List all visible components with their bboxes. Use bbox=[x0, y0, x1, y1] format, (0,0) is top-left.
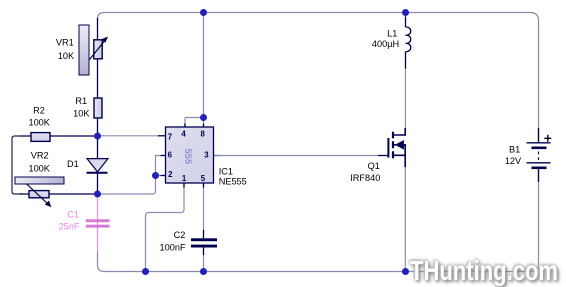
resistor R1 bbox=[94, 98, 102, 118]
ic pin stubs (dark) bbox=[161, 124, 220, 188]
svg-text:7: 7 bbox=[168, 133, 172, 142]
ic IC1 555 body bbox=[166, 127, 214, 183]
potentiometer VR2 element bbox=[27, 184, 52, 207]
label IC1 NE555 bbox=[219, 166, 247, 186]
label B1 value bbox=[505, 145, 522, 167]
wire source to ground rail bbox=[404, 166, 406, 272]
svg-text:100K: 100K bbox=[28, 163, 50, 173]
pin 5 bbox=[201, 174, 206, 183]
svg-text:100K: 100K bbox=[28, 117, 50, 127]
wire D1 branch bbox=[97, 136, 99, 194]
wire pin3 to gate bbox=[214, 155, 379, 157]
svg-text:THunting.com: THunting.com bbox=[410, 255, 558, 286]
wire battery bottom lead bbox=[532, 182, 539, 272]
label D1 bbox=[67, 159, 79, 169]
capacitor C2 bbox=[191, 230, 217, 255]
svg-text:IC1: IC1 bbox=[219, 166, 233, 176]
wire C2 to ground rail bbox=[203, 254, 205, 272]
label VR1 value bbox=[56, 38, 75, 61]
svg-text:8: 8 bbox=[201, 130, 206, 139]
svg-text:10K: 10K bbox=[73, 109, 90, 119]
svg-text:1: 1 bbox=[182, 174, 187, 183]
wire node2/6 tie bbox=[98, 156, 166, 195]
svg-text:Q1: Q1 bbox=[368, 161, 380, 171]
junction dot ground rail pin1 bbox=[142, 268, 149, 275]
svg-text:100nF: 100nF bbox=[160, 242, 186, 252]
svg-text:C1: C1 bbox=[67, 210, 79, 220]
junction dot pins 4/8 bbox=[200, 114, 207, 121]
svg-text:L1: L1 bbox=[387, 29, 397, 39]
wire pin1 to ground rail bbox=[146, 183, 185, 272]
pin 3 bbox=[204, 151, 209, 160]
junction dot pins 2/6 bbox=[152, 172, 159, 179]
battery B1 bbox=[527, 128, 552, 182]
watermark THunting.com bbox=[409, 254, 560, 287]
potentiometer VR1 element bbox=[90, 37, 109, 60]
wire VR2 row bbox=[20, 193, 98, 195]
transistor Q1 MOSFET bbox=[388, 128, 405, 167]
svg-text:4: 4 bbox=[181, 130, 186, 139]
inductor L1 bbox=[406, 17, 411, 69]
svg-text:3: 3 bbox=[204, 151, 209, 160]
wire C1 branch (pink net) bbox=[97, 194, 99, 252]
label Q1 value bbox=[350, 161, 380, 183]
wire R2 row bbox=[20, 135, 98, 137]
wire L1 branch / drain bbox=[405, 13, 407, 17]
junction dot ground rail C2 bbox=[200, 268, 207, 275]
label R2 value bbox=[28, 106, 50, 128]
svg-text:6: 6 bbox=[168, 151, 173, 160]
resistor R2 bbox=[31, 133, 50, 142]
label R1 value bbox=[73, 96, 90, 119]
junction dot R1/R2/D1/pin7 node bbox=[94, 133, 101, 140]
svg-text:B1: B1 bbox=[509, 145, 520, 155]
pin 1 bbox=[182, 174, 187, 183]
potentiometer VR2 track bbox=[15, 177, 64, 184]
pin 2 bbox=[168, 170, 173, 179]
pin 4 bbox=[181, 130, 186, 139]
wire top rail bbox=[98, 13, 539, 129]
pin 8 bbox=[201, 130, 206, 139]
wire 555 supply drop (top rail to pins 4/8) bbox=[185, 13, 204, 128]
svg-text:R2: R2 bbox=[33, 106, 45, 116]
wire left loop bbox=[12, 136, 22, 194]
wire left column upper (VR1/R1 branch lead) bbox=[97, 18, 99, 136]
label VR2 value bbox=[28, 151, 50, 174]
label C2 value bbox=[160, 230, 186, 252]
junction dot ground rail source bbox=[402, 268, 409, 275]
wire pin7 to R1 junction bbox=[98, 135, 159, 137]
potentiometer VR1 track bbox=[79, 25, 89, 75]
svg-text:VR1: VR1 bbox=[56, 38, 74, 48]
junction dot top rail at 555 drop bbox=[200, 9, 207, 16]
svg-text:C2: C2 bbox=[174, 230, 186, 240]
svg-text:R1: R1 bbox=[75, 96, 87, 106]
capacitor C1 (pink) bbox=[86, 219, 110, 227]
svg-text:5: 5 bbox=[201, 174, 206, 183]
svg-text:10K: 10K bbox=[58, 51, 75, 61]
pin 6 bbox=[168, 151, 173, 160]
svg-text:VR2: VR2 bbox=[31, 151, 49, 161]
label L1 value bbox=[372, 29, 399, 50]
svg-text:2: 2 bbox=[168, 170, 173, 179]
junction dot D1/VR2/C1 node bbox=[94, 191, 101, 198]
diode D1 bbox=[87, 159, 109, 173]
junction dot top rail at L1 bbox=[402, 9, 409, 16]
wire pin5 to C2 bbox=[203, 183, 205, 231]
svg-text:25nF: 25nF bbox=[59, 221, 80, 231]
svg-text:IRF840: IRF840 bbox=[350, 173, 380, 183]
svg-text:12V: 12V bbox=[505, 156, 522, 166]
svg-text:400µH: 400µH bbox=[372, 39, 399, 49]
svg-text:D1: D1 bbox=[67, 159, 79, 169]
svg-text:555: 555 bbox=[182, 148, 193, 165]
pin 7 bbox=[168, 133, 172, 142]
label C1 value bbox=[59, 210, 80, 232]
svg-text:NE555: NE555 bbox=[219, 177, 247, 187]
wire bottom rail bbox=[104, 271, 531, 273]
